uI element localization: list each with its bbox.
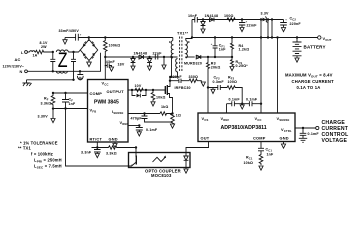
svg-text:18V: 18V (118, 62, 125, 66)
svg-text:1nF: 1nF (219, 47, 227, 51)
svg-text:0.1A TO 1A: 0.1A TO 1A (297, 85, 321, 90)
svg-text:100Ω: 100Ω (224, 14, 234, 18)
svg-text:COMP: COMP (90, 91, 103, 96)
svg-text:Z: Z (58, 49, 68, 72)
svg-text:0.25Ω*: 0.25Ω* (236, 64, 249, 68)
svg-text:0.3mF: 0.3mF (213, 80, 225, 84)
svg-text:COMP: COMP (253, 136, 266, 141)
svg-text:OUT: OUT (201, 136, 210, 141)
svg-text:BATTERY: BATTERY (304, 44, 326, 49)
svg-text:TX1**: TX1** (177, 31, 189, 36)
svg-text:10kΩ: 10kΩ (244, 161, 254, 165)
svg-text:1Ω: 1Ω (176, 113, 181, 117)
svg-text:3.30V: 3.30V (38, 115, 49, 119)
svg-text:RT/CT: RT/CT (90, 136, 103, 141)
svg-text:3.3nF: 3.3nF (81, 151, 92, 155)
svg-text:120V/230V~: 120V/230V~ (3, 64, 25, 68)
svg-text:VOLTAGE: VOLTAGE (322, 138, 348, 144)
svg-text:1kΩ: 1kΩ (161, 105, 168, 109)
svg-text:100Ω: 100Ω (228, 80, 238, 84)
svg-text:220pF: 220pF (171, 75, 183, 79)
svg-text:L: L (21, 50, 24, 55)
svg-text:10V: 10V (135, 84, 142, 88)
svg-text:1.2kΩ: 1.2kΩ (239, 48, 250, 52)
svg-text:0.1mF: 0.1mF (146, 128, 158, 132)
svg-text:0.1mF: 0.1mF (246, 97, 258, 101)
svg-text:22nF: 22nF (153, 51, 163, 55)
svg-text:330Ω: 330Ω (189, 75, 199, 79)
svg-text:3.3kΩ: 3.3kΩ (106, 152, 117, 156)
svg-text:10kΩ: 10kΩ (156, 96, 166, 100)
svg-text:0.1mF: 0.1mF (308, 132, 320, 136)
svg-text:1nF: 1nF (267, 153, 275, 157)
svg-text:3.3V: 3.3V (261, 12, 270, 16)
svg-text:MURD320: MURD320 (184, 61, 202, 65)
svg-text:220nF: 220nF (290, 22, 302, 26)
svg-text:2W: 2W (41, 45, 47, 49)
svg-text:22mF: 22mF (247, 24, 258, 28)
svg-text:MOC8103: MOC8103 (151, 173, 172, 178)
svg-text:IRFBC30: IRFBC30 (175, 86, 191, 90)
svg-text:1nF: 1nF (69, 102, 77, 106)
svg-text:N: N (20, 69, 23, 74)
svg-text:GND: GND (280, 136, 289, 141)
svg-text:10nF: 10nF (188, 14, 198, 18)
svg-text:PWM 3845: PWM 3845 (94, 100, 119, 106)
svg-text:** TX1: ** TX1 (18, 146, 31, 151)
svg-text:CHARGE CURRENT: CHARGE CURRENT (292, 79, 335, 84)
svg-text:3.3kΩ: 3.3kΩ (41, 102, 52, 106)
svg-text:OUTPUT: OUTPUT (107, 89, 125, 94)
svg-text:GND: GND (109, 136, 118, 141)
svg-text:1A: 1A (33, 53, 38, 57)
svg-text:ADP3810/ADP3811: ADP3810/ADP3811 (221, 125, 267, 131)
svg-text:470pF: 470pF (131, 117, 143, 121)
svg-text:33mF/450V: 33mF/450V (59, 29, 80, 33)
svg-text:0.1mF: 0.1mF (229, 97, 241, 101)
svg-text:100kΩ: 100kΩ (109, 44, 121, 48)
svg-text:20kΩ: 20kΩ (211, 65, 221, 69)
svg-text:f = 100kHz: f = 100kHz (31, 151, 53, 156)
svg-text:43nF: 43nF (106, 60, 116, 64)
svg-text:* 1% TOLERANCE: * 1% TOLERANCE (20, 140, 58, 145)
svg-text:1N4148: 1N4148 (205, 14, 219, 18)
svg-text:AC: AC (15, 57, 21, 62)
svg-text:1N4148: 1N4148 (134, 51, 148, 55)
